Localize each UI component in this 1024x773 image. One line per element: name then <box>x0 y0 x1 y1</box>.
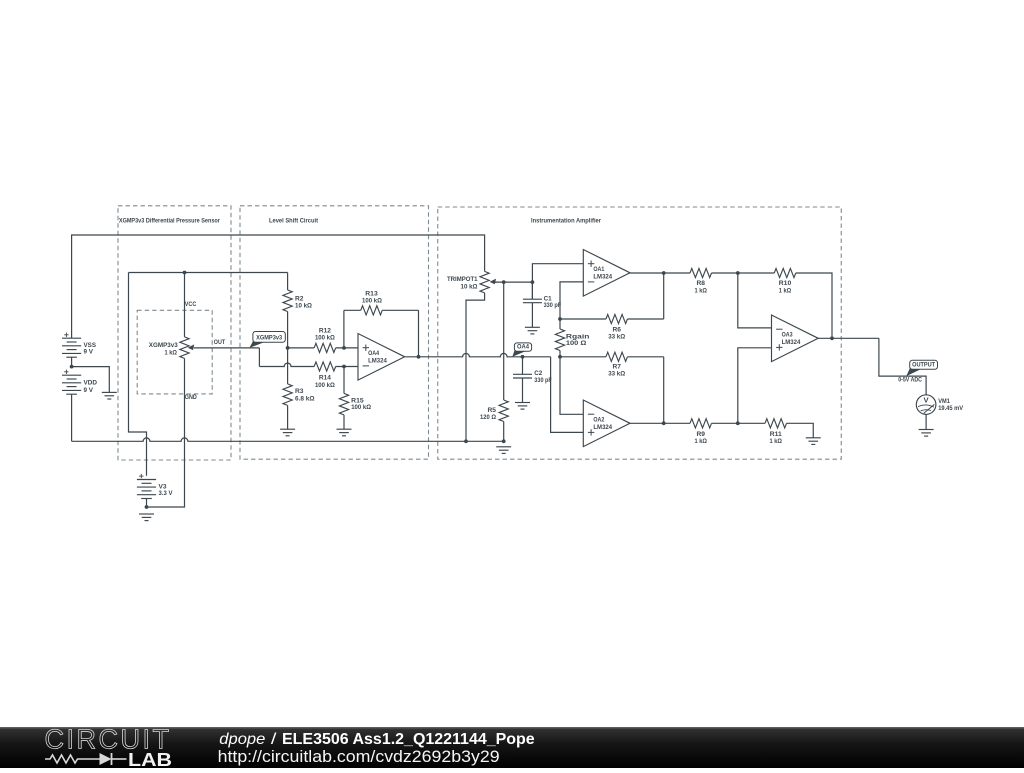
svg-text:330 pF: 330 pF <box>534 377 552 384</box>
svg-text:R5: R5 <box>488 407 497 414</box>
resistor R15 100k <box>339 393 371 415</box>
op-amp OA3 LM324 <box>772 315 819 362</box>
svg-text:1 kΩ: 1 kΩ <box>770 438 783 445</box>
ground bus <box>72 438 504 441</box>
svg-text:VDD: VDD <box>84 380 98 387</box>
svg-text:OA3: OA3 <box>782 331 793 338</box>
junction row B / R15 <box>342 365 346 369</box>
svg-text:330 pF: 330 pF <box>544 302 562 309</box>
svg-text:R7: R7 <box>612 363 621 370</box>
wire VM1 to ground <box>925 414 927 429</box>
wire divider to R3 <box>287 348 289 384</box>
wire trimpot bottom jog <box>466 293 485 441</box>
resistor R5 120 <box>480 400 508 422</box>
svg-text:33 kΩ: 33 kΩ <box>608 333 625 340</box>
module box: Level Shift Circuit <box>240 206 429 459</box>
junction OA1 out / R6 <box>662 271 666 275</box>
junction OA3 out / R10 <box>830 336 834 340</box>
wire V3- to sensor GND <box>147 358 185 507</box>
resistor R7 33k <box>606 352 628 377</box>
wire R9 to R11 segment <box>712 422 766 424</box>
resistor R9 1k <box>690 419 712 446</box>
battery VSS 9V <box>62 333 96 358</box>
wire R6 feedback drop <box>663 273 665 319</box>
wire row B left segment <box>259 363 314 366</box>
sensor pin label GND <box>185 394 197 401</box>
svg-text:R14: R14 <box>319 374 331 381</box>
resistor R8 1k <box>690 268 712 294</box>
junction OA1- / Rgain / R6 <box>558 317 562 321</box>
junction R9 / OA3+ branch <box>736 421 740 425</box>
sensor pin label OUT <box>214 339 226 346</box>
wire row B right segment <box>336 366 358 368</box>
wire R6 row leads <box>560 318 664 320</box>
resistor R11 1k <box>765 419 787 446</box>
wire OA4 output row <box>405 353 550 356</box>
svg-text:LM324: LM324 <box>368 357 387 364</box>
svg-text:LM324: LM324 <box>593 424 612 431</box>
svg-text:100 kΩ: 100 kΩ <box>362 298 382 305</box>
svg-text:OA4: OA4 <box>517 343 529 350</box>
CircuitLab logo CIRCUIT <box>45 724 172 755</box>
svg-text:dpope: dpope <box>219 731 265 748</box>
svg-text:9 V: 9 V <box>84 387 94 394</box>
battery VDD 9V <box>62 370 97 395</box>
svg-text:http://circuitlab.com/cvdz2692: http://circuitlab.com/cvdz2692b3y29 <box>218 748 500 766</box>
svg-text:R11: R11 <box>770 431 782 438</box>
wire R7 feedback drop <box>663 357 665 424</box>
ground C2 <box>515 403 530 410</box>
resistor R3 6.8k <box>283 384 315 406</box>
resistor R10 1k <box>774 268 796 294</box>
svg-text:Level Shift Circuit: Level Shift Circuit <box>269 218 319 225</box>
wire R15 top lead <box>343 367 345 394</box>
CircuitLab logo LAB <box>128 749 172 770</box>
wire OA1- lead <box>560 282 583 319</box>
wire top rail VSS+ to TRIMPOT1 top <box>72 235 485 338</box>
svg-text:100 kΩ: 100 kΩ <box>315 382 335 389</box>
sensor internal dashed box <box>137 310 212 394</box>
svg-text:R3: R3 <box>295 388 304 395</box>
wire VCC drop to V3+ <box>129 273 147 476</box>
svg-text:OUTPUT: OUTPUT <box>912 361 936 368</box>
svg-text:VCC: VCC <box>185 301 197 308</box>
svg-text:19.45 mV: 19.45 mV <box>938 405 963 412</box>
svg-text:OUT: OUT <box>214 339 226 346</box>
module box: Instrumentation Amplifier <box>438 207 842 459</box>
wire R10 right drop to OA3 out <box>796 273 832 338</box>
svg-text:R8: R8 <box>697 280 706 287</box>
wire R15 bottom lead <box>343 415 345 429</box>
junction OA4 out / R13 <box>417 355 421 359</box>
ground R5 <box>496 447 511 454</box>
wire R5 column <box>503 282 505 400</box>
net flag OA4 <box>512 343 531 357</box>
junction VCC row / sensor <box>183 271 187 275</box>
ground C1 <box>525 327 540 334</box>
voltmeter VM1 <box>916 395 963 415</box>
svg-text:33 kΩ: 33 kΩ <box>608 370 625 377</box>
svg-text:100 kΩ: 100 kΩ <box>315 335 335 342</box>
junction bus end / R5 <box>502 439 506 443</box>
svg-text:OA4: OA4 <box>368 350 379 357</box>
svg-text:1 kΩ: 1 kΩ <box>695 438 708 445</box>
net flag OUTPUT <box>906 360 937 376</box>
ground VM1 <box>919 430 934 437</box>
svg-text:TRIMPOT1: TRIMPOT1 <box>447 276 478 283</box>
svg-text:R6: R6 <box>612 326 621 333</box>
wire R8 to R10 segment <box>712 272 775 274</box>
svg-text:LM324: LM324 <box>593 273 612 280</box>
footer url <box>218 748 500 766</box>
wire C1 column to OA1+ <box>532 264 583 300</box>
svg-text:C2: C2 <box>534 370 542 377</box>
svg-text:3.3 V: 3.3 V <box>159 490 173 497</box>
op-amp OA1 LM324 <box>583 250 630 297</box>
wire battery midpoint to ground <box>72 367 110 393</box>
junction row A / divider <box>286 346 290 350</box>
svg-text:100 kΩ: 100 kΩ <box>351 404 371 411</box>
wire row A left segment <box>288 347 315 349</box>
sensor XGMP3v3 potentiometer <box>149 337 194 359</box>
CircuitLab logo resistor zigzag <box>45 755 100 763</box>
svg-text:R12: R12 <box>319 327 331 334</box>
wire R2 top lead <box>287 273 289 291</box>
resistor R2 10k <box>283 290 312 312</box>
svg-text:/: / <box>265 731 282 748</box>
op-amp OA4 LM324 <box>358 334 405 381</box>
wire R13 left drop <box>343 310 345 348</box>
svg-text:120 Ω: 120 Ω <box>480 414 496 421</box>
junction wiper / R5 column <box>502 280 506 284</box>
wire OA3 out drop to OUTPUT <box>879 338 926 395</box>
svg-text:VM1: VM1 <box>938 398 950 405</box>
resistor Rgain 100 <box>555 329 589 351</box>
svg-text:1 kΩ: 1 kΩ <box>779 287 792 294</box>
wire R2 bottom to row A <box>287 312 289 348</box>
wire R3 bottom lead <box>287 405 289 429</box>
svg-text:R10: R10 <box>779 280 792 287</box>
svg-text:6.8 kΩ: 6.8 kΩ <box>295 396 315 403</box>
wire Rgain bottom lead <box>559 351 561 357</box>
junction bus / trimpot leg <box>464 439 468 443</box>
wire sensor OUT <box>194 347 260 349</box>
wire OA3 output <box>817 337 879 339</box>
wire row A right segment <box>336 347 358 349</box>
ground R3 <box>280 429 295 436</box>
sensor pin label VCC <box>185 301 197 308</box>
junction battery midpoint <box>70 365 74 369</box>
net flag XGMP3v3 <box>249 332 285 348</box>
net label 0-5V ADC <box>898 377 922 384</box>
trimpot TRIMPOT1 10k <box>447 271 497 293</box>
wire R13 row leads <box>344 309 419 311</box>
svg-text:XGMP3v3: XGMP3v3 <box>256 334 282 341</box>
wire OA3- branch <box>738 273 772 328</box>
junction R8 / OA3- branch <box>736 271 740 275</box>
wire R13 right drop <box>418 310 420 357</box>
wire OA2- lead <box>560 357 583 415</box>
junction V3- node <box>145 505 149 509</box>
svg-text:R9: R9 <box>697 431 706 438</box>
wire VDD- to ground bus <box>71 394 73 441</box>
svg-text:1 kΩ: 1 kΩ <box>165 349 178 356</box>
wire R5 bottom lead <box>503 422 505 442</box>
capacitor C1 330pF <box>523 282 561 327</box>
svg-text:1 kΩ: 1 kΩ <box>695 287 708 294</box>
svg-text:0-5V ADC: 0-5V ADC <box>898 377 922 384</box>
wire OA2 output row <box>630 422 691 424</box>
svg-text:LAB: LAB <box>128 749 172 768</box>
capacitor C2 330pF <box>513 357 552 403</box>
wire VCC row 3.3V rail <box>129 272 288 274</box>
ground V3 <box>139 514 154 521</box>
svg-text:ELE3506 Ass1.2_Q1221144_Pope: ELE3506 Ass1.2_Q1221144_Pope <box>282 731 535 748</box>
footer title dpope / ELE3506 Ass1.2_Q1221144_Pope <box>219 731 535 748</box>
resistor R6 33k <box>606 314 628 340</box>
wire OA1 output row <box>630 272 691 274</box>
wire OA4 out drop to OA2+ <box>551 357 584 433</box>
svg-text:GND: GND <box>185 394 197 401</box>
svg-text:XGMP3v3 Differential Pressure: XGMP3v3 Differential Pressure Sensor <box>119 217 220 224</box>
op-amp OA2 LM324 <box>583 400 630 447</box>
module box: XGMP3v3 Differential Pressure Sensor <box>118 206 231 460</box>
svg-text:XGMP3v3: XGMP3v3 <box>149 342 178 349</box>
wire R7 row leads <box>560 356 664 358</box>
ground R11 <box>806 438 821 445</box>
resistor R14 100k <box>314 362 336 389</box>
wire OUT drop to row B <box>258 348 260 367</box>
wire trimpot wiper row <box>495 281 532 283</box>
resistor R12 100k <box>314 327 336 352</box>
svg-text:10 kΩ: 10 kΩ <box>461 283 478 290</box>
svg-text:LM324: LM324 <box>782 339 801 346</box>
junction OA4 out / C2 <box>521 355 525 359</box>
junction Rgain / R7 / OA2- <box>558 355 562 359</box>
svg-text:Instrumentation Amplifier: Instrumentation Amplifier <box>531 218 601 225</box>
battery V3 3.3V <box>137 474 173 499</box>
resistor R13 100k <box>361 291 383 315</box>
wire VSS- to VDD+ <box>71 357 73 366</box>
CircuitLab logo diode <box>100 753 127 765</box>
junction wiper / C1 column <box>531 280 535 284</box>
ground R15 <box>337 429 352 436</box>
junction row A / R13 drop <box>342 346 346 350</box>
wire Rgain top lead <box>559 319 561 329</box>
svg-text:10 kΩ: 10 kΩ <box>295 302 312 309</box>
svg-text:100 Ω: 100 Ω <box>566 340 587 347</box>
wire R11 to ground <box>787 423 814 438</box>
ground battery midpoint <box>102 392 117 399</box>
svg-text:9 V: 9 V <box>84 349 94 356</box>
junction OA2 out / R7 <box>662 421 666 425</box>
wire OA3+ branch <box>738 348 772 424</box>
svg-text:OA2: OA2 <box>593 416 604 423</box>
wire sensor VCC lead <box>184 273 186 337</box>
svg-text:OA1: OA1 <box>593 266 604 273</box>
